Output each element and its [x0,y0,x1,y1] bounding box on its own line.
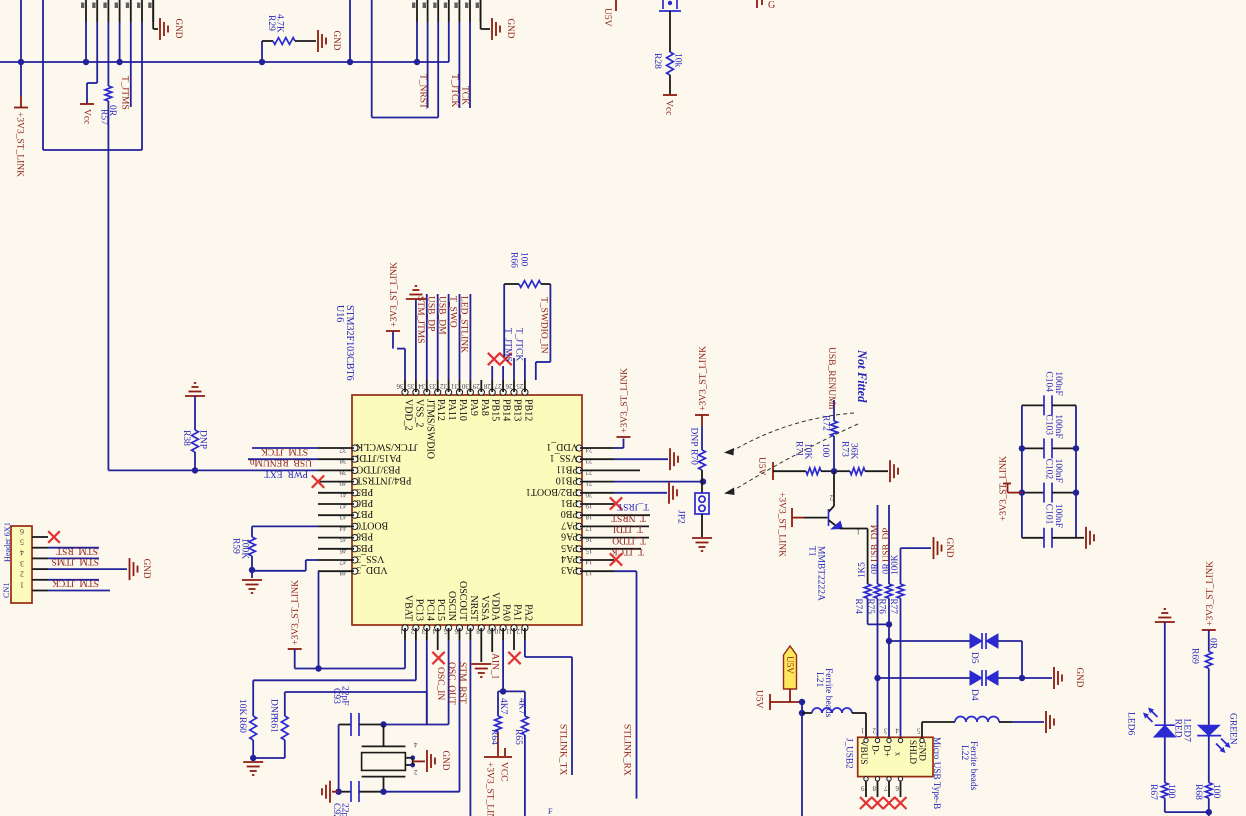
svg-text:VDD_1: VDD_1 [546,441,578,452]
jumper SB (cut off at top) [659,0,681,11]
junction dots capacitor bank [1019,445,1080,496]
svg-text:R60: R60 [237,717,247,733]
svg-text:PWR_EXT: PWR_EXT [264,468,308,478]
svg-text:18: 18 [585,513,593,521]
svg-text:MMBT2222A: MMBT2222A [816,546,826,601]
resistor R77 100K [889,548,904,737]
connector J2 pin stubs (cut off at top edge) [412,0,481,22]
connector CN1 Header 6X1 body [2,522,32,603]
svg-text:PA11: PA11 [446,399,457,421]
svg-text:6: 6 [20,527,24,536]
net label T_JTDI (PA7) [613,524,649,534]
svg-text:PB10: PB10 [556,475,578,486]
diode D5 (TVS) [886,638,970,644]
bus wire (horizontal net at top) [0,61,449,63]
inductor L21 Ferrite beads [802,668,866,737]
svg-text:OSC_OUT: OSC_OUT [446,662,456,705]
wire CN1 pin1 [48,590,110,592]
svg-text:STM_JTCK: STM_JTCK [261,446,308,456]
wire CN1 pin3 to ground [48,568,127,570]
U16 bottom pin stubs [405,628,525,640]
svg-text:R74: R74 [854,599,864,615]
resistor R68 100 [1193,783,1221,812]
svg-text:PB3/JTDO: PB3/JTDO [356,463,400,474]
wire pin7 J1 to ground [153,0,158,29]
wire R77 to ground [901,547,932,549]
svg-text:R28: R28 [652,53,662,69]
svg-text:100: 100 [519,252,529,267]
svg-text:10k: 10k [673,53,683,68]
svg-text:T_SWDIO_IN: T_SWDIO_IN [539,297,549,354]
svg-text:26: 26 [505,382,513,390]
svg-text:T_SWO: T_SWO [448,296,458,328]
resistor R76 0R / net USB_DP [878,505,893,737]
svg-text:6: 6 [895,784,899,792]
crystal pins 4/2 to ground [405,741,425,777]
svg-text:GND: GND [174,19,184,39]
power flag +3V3_ST_LINK (cap bank) [999,456,1022,521]
svg-text:46: 46 [339,546,347,554]
svg-text:R77: R77 [889,599,899,615]
svg-text:20: 20 [585,490,593,498]
svg-text:LED6: LED6 [1126,712,1136,735]
svg-text:BOOT0: BOOT0 [356,519,388,530]
crystal X3 [362,725,406,792]
svg-text:U5V: U5V [785,656,795,674]
wire D5 right [998,641,1022,678]
svg-text:PB9: PB9 [356,542,373,553]
resistor R28 10k [652,11,683,94]
svg-text:R64: R64 [489,729,499,745]
net label T_JTMS (left) [120,22,131,110]
transistor T1 MMBT2222A [807,471,868,601]
svg-text:100nF: 100nF [1053,371,1063,395]
svg-text:VSS_1: VSS_1 [550,452,578,463]
annotation Not Fitted with arrows [724,349,869,495]
svg-text:+3V3_ST_LINK: +3V3_ST_LINK [485,762,495,816]
svg-text:VCC: VCC [499,762,509,782]
power flag +3V3_ST_LINK (R70) [695,346,709,415]
svg-text:GND: GND [1075,668,1085,688]
svg-text:PC13: PC13 [413,599,424,621]
net label STM_RST [48,546,99,556]
svg-text:PB7: PB7 [356,508,373,519]
svg-text:C101: C101 [1044,504,1054,525]
svg-text:PB2/BOOT1: PB2/BOOT1 [526,486,578,497]
connector USB2 top pins [861,722,925,743]
svg-text:2: 2 [414,768,418,776]
resistor R75 0R / net USB_DM [866,505,881,737]
svg-text:28: 28 [483,382,491,390]
svg-text:D5: D5 [969,652,979,664]
wire D4/D5 to ground [998,675,1052,681]
svg-text:STM_JTCK: STM_JTCK [52,578,99,588]
svg-text:PC14: PC14 [424,599,435,621]
ground VSS_2 (flipped up) [406,286,426,380]
svg-text:22pF: 22pF [340,686,350,706]
svg-text:GND: GND [441,751,451,771]
svg-text:R38: R38 [181,430,191,446]
capacitor C103 100nF [1022,414,1076,458]
svg-text:PA15/JTDI: PA15/JTDI [356,452,401,463]
net label STLINK_TX [525,640,572,775]
svg-text:10K: 10K [237,699,247,716]
svg-text:+3V3_ST_LINK: +3V3_ST_LINK [777,492,787,557]
svg-text:R76: R76 [878,599,888,615]
wire pin7 J2 to ground [481,0,490,29]
wire crystal top rail [380,692,448,728]
svg-text:25: 25 [516,382,524,390]
svg-text:Vcc: Vcc [82,109,92,124]
wire J2 loop to upper pin [372,0,439,118]
svg-text:R65: R65 [513,729,523,745]
wire +3V3 stub top-left [20,0,22,62]
svg-text:T_JTCK: T_JTCK [611,546,644,556]
svg-text:GREEN: GREEN [1228,713,1238,745]
svg-text:4: 4 [414,741,418,749]
LED6 (red) [1126,708,1176,783]
svg-text:VDD_2: VDD_2 [403,399,414,431]
svg-text:LED7: LED7 [1182,719,1192,742]
power flag Vcc [80,104,94,124]
svg-text:45: 45 [339,535,347,543]
wire LED bottoms joined [1165,809,1212,816]
svg-text:+3V3_ST_LINK: +3V3_ST_LINK [291,580,301,645]
U16 top pin stubs [405,380,525,392]
diode D4 (TVS) [874,675,970,681]
svg-text:42: 42 [339,502,347,510]
wire pin6 J1 loop [43,0,142,150]
ground crystal (left) [322,781,339,803]
svg-text:PA1: PA1 [512,604,523,621]
net label T_JTCK (pin 26) [514,328,525,380]
wire crystal bottom rail [335,789,459,795]
junction dots on bus [18,59,420,65]
resistor R69 0R [1190,630,1218,725]
ground R38 (flipped up) [185,383,205,396]
connector USB2 Micro USB Type-B body [845,737,943,809]
wire PC14 to R61 and crystal [285,640,427,725]
no-connect X pin 28 [499,353,511,380]
capacitor C93 22pF [331,686,384,736]
wire PB10 to R70/JP2 [614,478,706,484]
svg-text:PB8: PB8 [356,531,373,542]
svg-text:3: 3 [884,727,888,735]
svg-text:F: F [548,807,553,816]
svg-text:47: 47 [339,558,347,566]
net label LED_STLINK [458,294,470,380]
svg-text:D+: D+ [882,745,892,757]
ground CN1 [130,558,153,580]
svg-text:T_JTDO: T_JTDO [612,535,646,545]
resistor R29 4K7 [262,14,316,62]
svg-text:7: 7 [884,784,888,792]
svg-text:C93: C93 [331,688,341,704]
net label T_SWO [448,294,460,380]
svg-text:100: 100 [1166,784,1176,799]
resistor R71 10K [794,441,835,475]
svg-text:R66: R66 [509,252,519,268]
net label T_NRST [418,22,428,109]
wire long vertical to bus dot [349,0,351,62]
svg-text:JTMS/SWDIO: JTMS/SWDIO [424,399,435,459]
svg-text:D-: D- [871,745,881,755]
power flag +3V3_ST_LINK (pin 36) [386,262,405,380]
svg-text:100K: 100K [240,538,250,559]
svg-text:Not Fitted: Not Fitted [855,349,869,403]
wire VDD_3 to 3V3 rail [318,571,320,668]
wire PWR_EXT net [108,469,318,471]
svg-text:T1: T1 [807,546,817,557]
wire pin4 J1 to bus [119,22,121,62]
power flag U5V (top, partial) [602,0,616,27]
svg-text:T_NRST: T_NRST [611,513,646,523]
svg-text:+3V3_ST_LINK: +3V3_ST_LINK [1205,561,1215,626]
svg-text:39: 39 [339,468,347,476]
svg-text:PB4/JNTRST: PB4/JNTRST [356,475,412,486]
svg-text:VBAT: VBAT [403,595,414,621]
svg-text:VSS_2: VSS_2 [413,399,424,427]
connector USB2 bottom pins [861,777,903,797]
svg-text:3: 3 [20,559,24,568]
svg-text:29: 29 [472,382,480,390]
svg-text:23: 23 [585,457,593,465]
ground VSS_1 [670,448,678,470]
IC U16 STM32F103CBT6 body [334,305,582,625]
power flag +3V3_ST_LINK (top-left) [14,62,28,177]
wire VSS_1 to ground [614,458,668,460]
svg-text:GND: GND [506,19,516,39]
capacitor C102 100nF [1022,459,1076,503]
inductor L22 Ferrite beads [922,717,1044,791]
svg-text:Micro USB Type-B: Micro USB Type-B [932,737,942,809]
svg-text:GND: GND [945,538,955,558]
svg-text:22pF: 22pF [340,803,350,816]
no-connect X marks USB2 [860,797,907,809]
net label T_JTDO (PA6) [612,535,649,545]
net label OSC_IN [435,640,449,725]
svg-text:R73: R73 [840,441,850,457]
svg-text:10K: 10K [803,443,813,460]
wire U5V rail down [799,699,805,816]
svg-text:CN1: CN1 [2,583,11,598]
svg-text:G: G [768,0,775,11]
wire R57 down to PWR_EXT net [107,101,109,470]
wire PB11 stub [614,469,640,471]
svg-text:C102: C102 [1044,459,1054,480]
svg-text:21: 21 [585,479,593,487]
net label TCK [460,22,471,108]
svg-text:4.7K: 4.7K [275,14,285,33]
svg-text:DNP: DNP [689,428,699,447]
ground crystal (right) [427,750,451,772]
svg-text:R75: R75 [866,599,876,615]
svg-text:4: 4 [895,727,899,735]
svg-text:24: 24 [585,446,593,454]
svg-text:PB15: PB15 [490,399,501,421]
svg-text:+3V3_ST_LINK: +3V3_ST_LINK [15,112,25,177]
capacitor C92 22pF [331,781,384,816]
svg-text:T_JTCK: T_JTCK [449,74,459,107]
svg-text:44: 44 [339,524,347,532]
svg-text:13: 13 [585,569,593,577]
net label USB_DM [437,294,449,380]
svg-text:22: 22 [585,468,593,476]
svg-text:1: 1 [861,727,865,735]
svg-text:STM_JTMS: STM_JTMS [415,296,425,344]
wire pin1 J1 to bus [85,22,87,62]
wire crystal left rail [338,725,340,792]
svg-text:VSSA: VSSA [479,595,490,621]
net label T_SWDIO_IN [539,297,549,354]
ground PB2 [669,482,677,504]
svg-text:8: 8 [872,784,876,792]
svg-text:4: 4 [20,548,24,557]
svg-text:4K7: 4K7 [498,698,508,715]
svg-text:NRST: NRST [468,595,479,621]
power flag +3V3_ST_LINK (R69) [1202,561,1216,630]
svg-text:T_JTDI: T_JTDI [613,524,643,534]
svg-text:J_USB2: J_USB2 [845,738,855,769]
svg-text:DNP: DNP [269,699,279,718]
svg-text:100: 100 [1211,784,1221,799]
svg-text:x: x [894,752,903,756]
ground symbol T1 [934,537,956,559]
svg-text:9: 9 [861,784,865,792]
ground LED6 (flipped up) [1155,609,1175,725]
resistor R64 4K7 [489,691,508,756]
svg-text:PB0: PB0 [561,508,578,519]
ground capacitor bank [1076,527,1094,549]
ground R29 [318,30,342,52]
svg-text:36K: 36K [849,443,859,460]
svg-text:PA6: PA6 [561,531,578,542]
svg-text:41: 41 [339,490,347,498]
svg-text:1: 1 [856,528,860,536]
svg-text:USB_RENUMn: USB_RENUMn [249,457,312,467]
ground R60/R61 [243,762,263,775]
net label T_JTCK (top) [449,22,459,108]
net label T_JTMS (pin 27) [503,328,515,380]
net label USB_RENUMn (pin 38) [248,457,318,467]
power flag +3V3_ST_LINK (VDD_1) [614,368,631,448]
svg-text:1K5: 1K5 [857,562,867,578]
svg-text:14: 14 [585,558,593,566]
svg-text:Ferrite beads: Ferrite beads [968,741,978,791]
connector J1 pin stubs (cut off at top edge) [81,0,153,22]
svg-text:PA7: PA7 [561,519,578,530]
net label STM_JTCK [48,578,99,588]
svg-text:DNP: DNP [198,430,208,449]
svg-text:35: 35 [407,382,415,390]
svg-text:2: 2 [829,494,833,502]
svg-text:PB6: PB6 [356,497,373,508]
svg-text:31: 31 [451,382,459,390]
svg-text:27: 27 [494,382,502,390]
net label AIN_1 / wire PA0 [490,640,507,695]
ground (partial, top edge) [757,0,775,11]
svg-text:100nF: 100nF [1053,504,1063,528]
wire BOOT0 to R59 [252,526,318,537]
resistor R65 4K7 [503,691,528,816]
resistor R38 DNP [181,396,208,474]
svg-text:R67: R67 [1148,784,1158,800]
svg-text:+3V3_ST_LINK: +3V3_ST_LINK [999,456,1009,521]
power flag U5V (yellow) [784,646,797,702]
svg-text:1: 1 [20,580,24,589]
net label STM_RST [457,640,470,816]
capacitor C101 100nF [1022,504,1076,548]
svg-text:VDD_3: VDD_3 [356,564,388,575]
svg-text:16: 16 [585,535,593,543]
IC U16 pin labels and numbers [339,382,593,635]
svg-text:OSCOUT: OSCOUT [457,581,468,621]
net label USB_DP [426,294,438,380]
no-connect X on PC15 [432,640,444,664]
svg-text:32: 32 [440,382,448,390]
ground J1 [160,18,184,40]
svg-text:30: 30 [461,382,469,390]
svg-text:PB14: PB14 [501,399,512,421]
power flag U5V (red, USB area) [754,690,803,710]
svg-text:T_JTCK: T_JTCK [514,328,524,361]
svg-text:STLINK_TX: STLINK_TX [558,724,568,775]
power flag U5V (R71) [756,457,806,480]
wire PB2/BOOT1 to ground [614,492,667,494]
svg-text:OSC_IN: OSC_IN [435,667,445,700]
svg-text:GND: GND [918,741,928,761]
wire VSS_3 to ground [252,560,318,571]
svg-text:PA3: PA3 [561,564,578,575]
svg-text:PA9: PA9 [468,399,479,416]
svg-text:43: 43 [339,513,347,521]
svg-text:GND: GND [142,559,152,579]
svg-text:JP2: JP2 [676,510,686,524]
svg-text:34: 34 [418,382,426,390]
resistor R61 DNP [253,699,288,758]
svg-text:R69: R69 [1190,648,1200,664]
svg-text:R68: R68 [1193,784,1203,800]
power flag +3V3_ST_LINK (R64) [484,757,498,816]
svg-text:+3V3_ST_LINK: +3V3_ST_LINK [390,262,400,327]
svg-text:USB_DP: USB_DP [426,296,436,331]
wire capacitor bank rails [1022,405,1076,537]
svg-text:AIN_1: AIN_1 [490,653,500,680]
svg-text:33: 33 [429,382,437,390]
svg-text:VBUS: VBUS [859,740,869,765]
svg-text:D4: D4 [969,689,979,701]
no-connect X pin 29 [488,353,500,380]
wire pin2 J1 to Vcc [87,22,97,104]
power flag Vcc (below R28) [663,95,677,115]
svg-text:VSS_3: VSS_3 [356,553,384,564]
net label OSC_OUT [446,640,460,792]
svg-text:R29: R29 [266,15,276,31]
svg-text:SHLD: SHLD [908,740,918,764]
svg-text:USB_DM: USB_DM [870,525,880,562]
ground D4/D5 [1054,667,1085,689]
svg-text:17: 17 [585,524,593,532]
ground J2 [492,18,516,40]
wire JP2 to ground [701,514,703,537]
svg-text:C103: C103 [1044,414,1054,435]
svg-text:PB1: PB1 [561,497,578,508]
resistor R66 100 loop [504,252,550,380]
net label STM_JTCK (pin 37) [252,446,318,456]
connector CN1 pins [32,537,48,591]
svg-text:PA0: PA0 [501,604,512,621]
svg-text:2: 2 [20,570,24,579]
